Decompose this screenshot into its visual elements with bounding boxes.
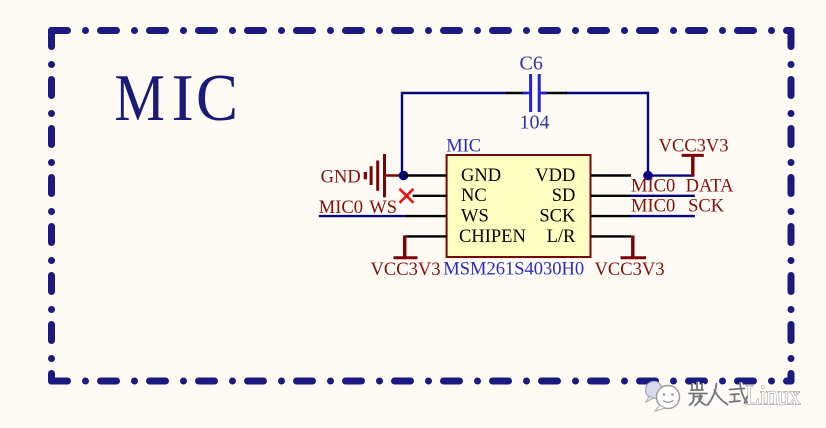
IC U1 MSM261S4030H0 body <box>447 155 591 257</box>
power port VCC3V3 (bottom left, on CHIPEN) <box>394 235 418 257</box>
title MIC <box>115 61 239 135</box>
pin SCK (right 3) <box>591 215 632 217</box>
ground symbol GND <box>365 154 403 197</box>
svg-text:CHIPEN: CHIPEN <box>459 227 526 247</box>
svg-text:VCC3V3: VCC3V3 <box>659 136 729 156</box>
bar 4 <box>364 172 367 179</box>
no-connect X on NC pin <box>400 189 414 203</box>
svg-text:NC: NC <box>461 186 487 206</box>
式 <box>730 383 748 403</box>
bar 2 <box>376 161 379 191</box>
wire net MIC0_WS <box>319 215 405 217</box>
power port VCC3V3 (top right) <box>682 155 704 176</box>
watermark logo (chat bubbles) <box>646 382 680 412</box>
pin WS (left 3) <box>405 215 446 217</box>
wire: right vertical from top wire to VDD node <box>647 92 649 176</box>
pin 2 of C6 (black lead) <box>542 92 567 95</box>
watermark text 嵌入式Linux <box>690 383 748 406</box>
嵌 <box>691 383 703 391</box>
wire net MIC0_SCK <box>630 215 695 217</box>
bar 3 <box>370 166 373 185</box>
svg-text:SD: SD <box>552 186 576 206</box>
svg-text:I: I <box>172 61 194 135</box>
node: junction at GND / pin1 <box>399 171 409 181</box>
pin L/R (right 4) <box>591 235 632 237</box>
pin SD (right 2) <box>591 195 632 197</box>
svg-text:MIC0WS: MIC0WS <box>319 198 397 218</box>
node: junction at VDD / cap <box>643 171 653 181</box>
svg-text:MSM261S4030H0: MSM261S4030H0 <box>443 260 584 280</box>
wire net VDD to power stub <box>648 174 694 176</box>
svg-text:WS: WS <box>461 207 489 227</box>
svg-text:Linux: Linux <box>746 381 801 412</box>
svg-text:104: 104 <box>520 112 550 134</box>
svg-text:VDD: VDD <box>535 166 575 186</box>
svg-text:VCC3V3: VCC3V3 <box>595 260 665 280</box>
sheet border (dash-dot frame) <box>52 31 792 382</box>
power port VCC3V3 (bottom right, on L/R) <box>621 235 647 257</box>
svg-text:M: M <box>115 62 165 135</box>
bar 1 <box>383 154 386 197</box>
svg-text:GND: GND <box>461 166 501 186</box>
blue lead stubs <box>523 92 530 95</box>
svg-text:VCC3V3: VCC3V3 <box>371 260 441 280</box>
pin 1 of C6 (black lead) <box>506 92 527 95</box>
svg-text:L/R: L/R <box>547 227 576 247</box>
svg-text:GND: GND <box>321 168 361 188</box>
pin GND (left 1) <box>403 174 447 176</box>
svg-text:SCK: SCK <box>539 207 576 227</box>
wire: top horizontal left segment (cap left lead net) <box>402 92 507 94</box>
pin CHIPEN (left 4) <box>406 235 447 237</box>
wire: left vertical from top wire to GND node <box>401 92 403 176</box>
wire: top horizontal right segment <box>566 92 649 94</box>
入 <box>708 384 728 406</box>
capacitor C6 <box>506 74 567 112</box>
svg-text:C: C <box>196 61 238 135</box>
pin VDD (right 1) <box>591 174 632 176</box>
svg-text:C6: C6 <box>520 52 543 74</box>
pin NC (left 2) <box>413 195 447 197</box>
stub <box>386 174 404 177</box>
svg-text:MIC: MIC <box>446 137 481 157</box>
plates <box>529 74 532 112</box>
wire net MIC0_DATA <box>630 195 695 197</box>
